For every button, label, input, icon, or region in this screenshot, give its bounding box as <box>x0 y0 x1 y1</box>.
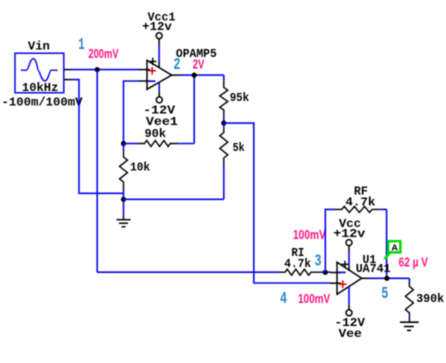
op-amp U1 UA741 <box>337 262 362 294</box>
opamp5 + input stub <box>139 69 150 71</box>
ua741 power plus marker <box>341 261 348 268</box>
junction dot ground node <box>121 197 126 202</box>
wire Vee pin <box>158 82 160 91</box>
resistor 5k <box>220 123 228 199</box>
svg-text:+12v: +12v <box>333 227 365 241</box>
svg-text:10kHz: 10kHz <box>22 81 59 95</box>
svg-text:A: A <box>392 242 398 253</box>
svg-text:95k: 95k <box>230 91 250 105</box>
svg-text:-100m/100mV: -100m/100mV <box>2 95 84 109</box>
svg-text:Vee: Vee <box>339 327 362 341</box>
junction dot inverting node <box>121 141 126 146</box>
wire Vin+ to opamp <box>71 69 140 71</box>
ground symbol G2 <box>400 318 419 330</box>
svg-text:2V: 2V <box>193 57 205 72</box>
wire ua741 output to node5 <box>370 277 409 279</box>
wire ua741 Vee pin <box>348 287 350 305</box>
resistor RI 4.7k <box>279 269 332 275</box>
svg-text:Vin: Vin <box>28 40 50 54</box>
resistor 90k <box>124 141 195 147</box>
svg-text:10k: 10k <box>130 161 150 175</box>
svg-text:+12v: +12v <box>142 20 172 34</box>
node A flag <box>383 241 400 259</box>
svg-text:1: 1 <box>78 36 84 55</box>
svg-text:100mV: 100mV <box>293 227 326 242</box>
node 3 junction <box>323 270 328 275</box>
wire ground node to 5k <box>124 198 224 200</box>
svg-text:4: 4 <box>280 290 287 309</box>
ua741 plus input stub <box>331 282 342 284</box>
svg-text:4.7k: 4.7k <box>284 257 311 271</box>
opamp5 Vee pin circle <box>156 97 162 103</box>
svg-text:5: 5 <box>381 285 388 304</box>
opamp5 output stub <box>172 74 180 76</box>
wire Vin- <box>71 80 124 194</box>
svg-text:390k: 390k <box>416 292 444 306</box>
svg-text:2: 2 <box>174 56 181 75</box>
node 5 junction <box>384 276 389 281</box>
node 1 junction <box>95 67 100 72</box>
pin stub Vin + <box>64 69 72 71</box>
wire opamp5 output to node2 <box>180 74 224 76</box>
ua741 Vcc pin circle <box>346 240 352 246</box>
wire ua741 Vcc pin <box>348 246 350 252</box>
ua741 blue minus marker <box>338 271 345 273</box>
ua741 minus input stub <box>331 272 342 274</box>
ground symbol G1 <box>117 216 131 227</box>
opamp5 red plus marker <box>148 67 156 75</box>
svg-text:62 µ V: 62 µ V <box>399 255 429 270</box>
wire 90k up to node2 <box>193 75 195 143</box>
wire Vcc pin <box>158 39 160 45</box>
svg-text:5k: 5k <box>233 141 245 155</box>
opamp5 blue minus marker <box>148 80 155 82</box>
ua741 output stub <box>362 277 370 279</box>
wire node3 up to RF <box>325 209 334 272</box>
wire node1 down <box>96 70 98 273</box>
resistor RF 4.7k <box>335 206 387 212</box>
op-amp OPAMP5 <box>147 60 172 89</box>
ua741 red plus marker <box>339 280 347 288</box>
wire divider to plus input <box>224 123 331 283</box>
svg-text:3: 3 <box>315 253 322 272</box>
ua741 Vee pin circle <box>346 310 352 316</box>
svg-text:UA741: UA741 <box>356 262 391 276</box>
wire opamp5 minus input <box>124 81 140 144</box>
voltage source Vin box <box>15 53 64 93</box>
svg-text:200mV: 200mV <box>88 46 118 61</box>
junction dot divider <box>221 121 226 126</box>
pin stub Vin - <box>64 79 72 81</box>
opamp5 Vcc pin circle <box>156 33 162 39</box>
svg-text:4.7k: 4.7k <box>345 196 375 210</box>
wire node1 to RI <box>97 271 278 273</box>
opamp5 power plus marker <box>149 58 156 65</box>
wire RF down to node5 <box>386 209 388 278</box>
resistor 10k <box>120 144 128 216</box>
svg-text:100mV: 100mV <box>298 291 330 306</box>
node 2 junction <box>192 73 197 78</box>
svg-text:90k: 90k <box>145 127 167 141</box>
opamp5 - input stub <box>139 80 150 82</box>
resistor 390k <box>405 278 413 318</box>
resistor 95k <box>220 75 228 123</box>
